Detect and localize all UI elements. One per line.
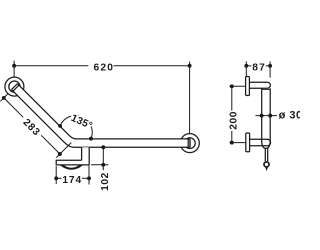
dot 87 left [244, 64, 248, 68]
svg-text:174: 174 [62, 175, 82, 186]
dim 174 line right [82, 177, 89, 179]
dim 620 line right [114, 65, 190, 67]
dot 174 left [54, 176, 58, 180]
dot dia30 right [268, 114, 272, 118]
dim 87 ext right [269, 61, 271, 77]
dim dia30 leader [255, 115, 277, 117]
dim 87 ext left [245, 61, 247, 76]
svg-text:ø 30: ø 30 [279, 110, 300, 122]
dim 87 line right [266, 65, 270, 67]
dim 87 line [246, 65, 252, 67]
paper holder spring arc outer [61, 165, 83, 169]
dot 102 top [101, 145, 105, 149]
svg-text:620: 620 [93, 63, 114, 74]
dot 283 upper [2, 96, 6, 100]
side view tube bottom cap [262, 141, 271, 149]
dim 200 ext top [229, 85, 245, 87]
dot 620 left [12, 64, 16, 68]
dot 200 top [230, 84, 234, 88]
side view tube right edge [269, 88, 271, 140]
paper holder spring arc inner [62, 165, 80, 169]
side view bottom arm [250, 139, 271, 146]
svg-text:283: 283 [20, 117, 42, 139]
holder tip [265, 167, 268, 171]
side view top arm [249, 82, 270, 88]
dim 102 ext bottom [91, 164, 108, 166]
svg-text:135°: 135° [69, 113, 94, 132]
side view wall plate top [246, 77, 250, 96]
bar end cap right inner line [187, 139, 189, 147]
dim 620 ext left [13, 61, 15, 77]
bar end cap right [189, 139, 191, 147]
holder knob ring [264, 162, 269, 167]
holder rod right edge [267, 148, 269, 161]
svg-text:200: 200 [229, 111, 240, 130]
support post left edge [81, 147, 83, 160]
svg-text:102: 102 [100, 172, 111, 191]
svg-text:87: 87 [252, 63, 266, 74]
dim 102 line [102, 147, 104, 170]
wall flange right inner [184, 138, 195, 149]
side view wall plate bottom [246, 133, 250, 152]
wall flange left outer [5, 77, 24, 96]
bar end cap left [11, 84, 17, 90]
holder rod left edge [264, 148, 266, 161]
dot 87 right [268, 64, 272, 68]
dim 135 arc [60, 116, 92, 139]
dim 200 ext bottom [229, 142, 245, 144]
top arm underline [262, 88, 270, 90]
grab bar body white fill [11, 84, 190, 148]
dot 620 right [188, 64, 192, 68]
dim 174 line [56, 177, 62, 179]
dim 620 ext right [189, 62, 191, 134]
dim 174 ext right [88, 166, 90, 185]
dim 620 line left [14, 65, 88, 67]
dot dia30 left [260, 114, 264, 118]
dim 283 ext lower [56, 143, 71, 158]
dot 283 lower [58, 152, 62, 156]
diagonal bar lower edge + elbow [11, 90, 189, 148]
bar end cap left inner line [13, 85, 19, 91]
dim 200 line [231, 86, 233, 142]
support post white fill [82, 147, 90, 165]
support post right edge [88, 147, 90, 165]
dim 283 ext upper [0, 94, 8, 102]
dot 135 right [89, 137, 93, 141]
wall flange left inner [9, 81, 20, 92]
wall flange right outer [180, 134, 199, 153]
dot 174 right [87, 176, 91, 180]
paper holder plate [56, 160, 89, 165]
dim 283 line lower [41, 135, 60, 154]
dot 135 left [58, 124, 62, 128]
dot 200 bottom [230, 141, 234, 145]
dim 174 ext left [55, 166, 57, 184]
side view tube left edge [261, 88, 263, 140]
dim 283 line upper [4, 98, 23, 117]
dot 102 bottom [101, 163, 105, 167]
diagonal bar upper edge [17, 84, 189, 139]
